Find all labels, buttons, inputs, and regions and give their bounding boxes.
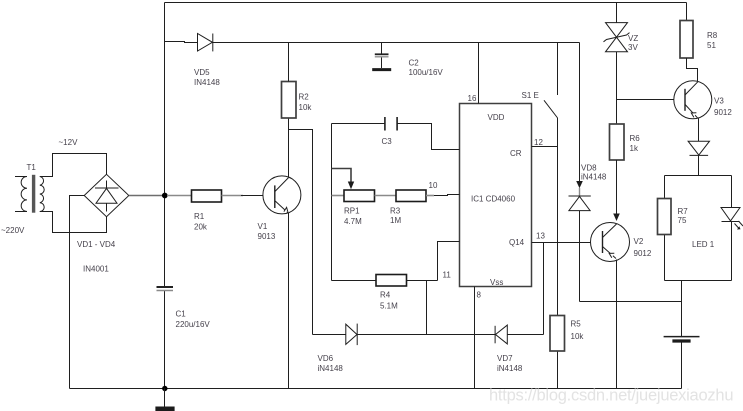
svg-text:VD8: VD8: [581, 164, 597, 173]
svg-text:10k: 10k: [299, 103, 313, 112]
svg-text:~12V: ~12V: [59, 138, 79, 147]
wire branch to VD6 drop: [289, 130, 313, 335]
wire VD7 up to Q14 net: [543, 243, 545, 335]
wire V3 emitter to diode: [698, 119, 700, 142]
svg-text:R7: R7: [678, 207, 689, 216]
diode under V3: [688, 141, 709, 175]
wire primary top stub: [15, 176, 27, 178]
svg-text:20k: 20k: [194, 223, 208, 232]
svg-text:13: 13: [536, 232, 545, 241]
svg-text:12: 12: [534, 138, 543, 147]
wire bridge left vertex to left rail: [70, 196, 85, 389]
svg-text:R3: R3: [390, 207, 401, 216]
wire top rail from main vertical to R8: [165, 2, 687, 4]
svg-text:VD5: VD5: [194, 68, 210, 77]
svg-text:Q14: Q14: [509, 238, 525, 247]
wire pin11 from R4: [438, 242, 460, 281]
LED 1: [721, 208, 740, 221]
wire VD8 column from top rail: [579, 43, 581, 183]
svg-text:R2: R2: [299, 93, 310, 102]
svg-text:C1: C1: [176, 310, 187, 319]
svg-text:iN4148: iN4148: [318, 364, 344, 373]
svg-text:https://blog.csdn.net/juejuexi: https://blog.csdn.net/juejuexiaozhu: [489, 387, 734, 405]
wire V3 base from VZ/R6 junction: [617, 99, 675, 101]
wire pin9 from C3: [397, 124, 459, 150]
svg-text:VD1 - VD4: VD1 - VD4: [77, 240, 116, 249]
arrow into VD8: [576, 181, 583, 188]
svg-text:T1: T1: [27, 163, 37, 172]
svg-text:iN4148: iN4148: [497, 364, 523, 373]
wire VD5 row y=42 from main vertical to VD8 drop: [165, 42, 580, 43]
svg-text:3V: 3V: [628, 43, 638, 52]
wire V1 collector up to R2: [288, 118, 290, 177]
svg-text:16: 16: [468, 94, 477, 103]
svg-text:10: 10: [429, 181, 438, 190]
RP1 wiper arrow: [332, 169, 355, 190]
battery GB: [664, 337, 700, 389]
potentiometer RP1: [332, 190, 375, 202]
transistor V3: [674, 81, 712, 119]
emitter arrow: [691, 113, 696, 118]
wire bridge right vertex to node dot: [129, 195, 165, 197]
bridge rectifier VD1-VD4: [84, 174, 129, 216]
resistor R5: [550, 316, 565, 352]
svg-text:RP1: RP1: [344, 207, 360, 216]
wire right branch: [731, 176, 733, 208]
wire secondary top lead: [40, 154, 107, 177]
node junction dot (ground rail): [162, 386, 167, 391]
wire VD8 anode to battery top: [580, 301, 682, 303]
transformer T1: [15, 154, 107, 233]
svg-text:VD6: VD6: [318, 354, 334, 363]
transistor V1: [263, 176, 301, 214]
svg-text:10k: 10k: [571, 332, 585, 341]
node A vertical (oscillator): [331, 124, 333, 281]
diode VD8: [569, 188, 591, 302]
core bars: [32, 175, 35, 213]
secondary winding: [40, 177, 44, 212]
wire box bottom: [665, 280, 732, 282]
svg-text:8: 8: [477, 291, 482, 300]
capacitor C2: [372, 43, 391, 70]
svg-text:IN4001: IN4001: [83, 265, 109, 274]
svg-text:S1 E: S1 E: [522, 91, 539, 100]
diode VD7: [495, 325, 507, 344]
wire VD6-VD7 line: [313, 334, 544, 336]
wire V1 emitter down to ground rail: [288, 213, 290, 389]
svg-text:9012: 9012: [714, 108, 732, 117]
zener VZ: [604, 3, 630, 125]
switch S1: [544, 43, 558, 389]
resistor R1: [167, 190, 263, 202]
node junction dot (bridge output): [162, 193, 168, 199]
svg-text:75: 75: [678, 216, 687, 225]
diode VD6: [346, 324, 357, 346]
svg-text:5.1M: 5.1M: [380, 302, 398, 311]
svg-text:C3: C3: [382, 137, 393, 146]
svg-text:C2: C2: [409, 59, 420, 68]
resistor R6: [610, 124, 625, 221]
LED1 / R7 box: [658, 176, 743, 337]
wire pin12 to switch column: [532, 146, 558, 148]
emitter arrow: [609, 253, 614, 258]
svg-text:IN4148: IN4148: [194, 78, 220, 87]
capacitor C3: [332, 117, 398, 131]
wire pin13 Q14 to V2 base: [532, 242, 591, 244]
wire main left vertical below C1 to bottom rail: [164, 291, 166, 389]
inner diode: [106, 181, 108, 189]
wire box bottom to battery: [681, 281, 683, 337]
svg-text:V2: V2: [634, 237, 644, 246]
svg-text:VD7: VD7: [497, 354, 513, 363]
svg-text:51: 51: [707, 41, 716, 50]
svg-text:V3: V3: [714, 97, 724, 106]
svg-text:9013: 9013: [258, 232, 276, 241]
emitter arrow: [284, 207, 288, 212]
primary winding: [21, 177, 27, 212]
svg-text:IC1 CD4060: IC1 CD4060: [471, 195, 516, 204]
IC1 CD4060 box: [460, 104, 532, 287]
svg-text:9012: 9012: [634, 249, 652, 258]
resistor R8: [680, 3, 698, 82]
svg-text:1k: 1k: [630, 144, 639, 153]
resistor R3: [375, 190, 435, 202]
svg-text:R6: R6: [630, 134, 641, 143]
svg-text:220u/16V: 220u/16V: [176, 320, 211, 329]
svg-text:R5: R5: [571, 320, 582, 329]
svg-text:100u/16V: 100u/16V: [409, 68, 444, 77]
resistor R7: [658, 199, 672, 235]
svg-text:CR: CR: [510, 149, 522, 158]
ground: [155, 389, 174, 409]
wire pin16 up to top rail: [478, 43, 480, 104]
svg-text:11: 11: [443, 271, 452, 280]
svg-text:R8: R8: [707, 31, 718, 40]
svg-text:iN4148: iN4148: [581, 173, 607, 182]
wire bottom ground rail: [70, 388, 682, 390]
svg-text:R1: R1: [194, 212, 205, 221]
svg-text:V1: V1: [258, 222, 268, 231]
wire primary bottom stub: [15, 211, 27, 213]
wire V2 emitter down to ground rail: [616, 260, 618, 389]
resistor R4: [332, 275, 438, 287]
wire box top: [665, 175, 732, 177]
svg-text:R4: R4: [380, 291, 391, 300]
svg-text:~220V: ~220V: [1, 226, 25, 235]
svg-text:Vss: Vss: [490, 278, 503, 287]
svg-text:VZ: VZ: [628, 34, 638, 43]
diode VD5: [198, 34, 213, 52]
svg-text:VDD: VDD: [488, 113, 505, 122]
svg-text:1M: 1M: [390, 216, 401, 225]
wire R4 junction down to VD6/VD7 line: [426, 281, 428, 335]
capacitor C1: [157, 287, 174, 291]
svg-text:LED 1: LED 1: [692, 240, 715, 249]
wire left branch: [664, 176, 666, 199]
svg-text:4.7M: 4.7M: [344, 217, 362, 226]
resistor R2: [282, 43, 297, 119]
diamond: [84, 174, 129, 216]
wire secondary bottom lead: [40, 212, 107, 233]
transistor V2: [591, 223, 630, 262]
wire pin10 from R3: [426, 195, 459, 196]
wire main left vertical x=164.5 top rail down to C1 top plate: [164, 3, 166, 287]
wire pin8 down to ground rail: [474, 287, 476, 389]
